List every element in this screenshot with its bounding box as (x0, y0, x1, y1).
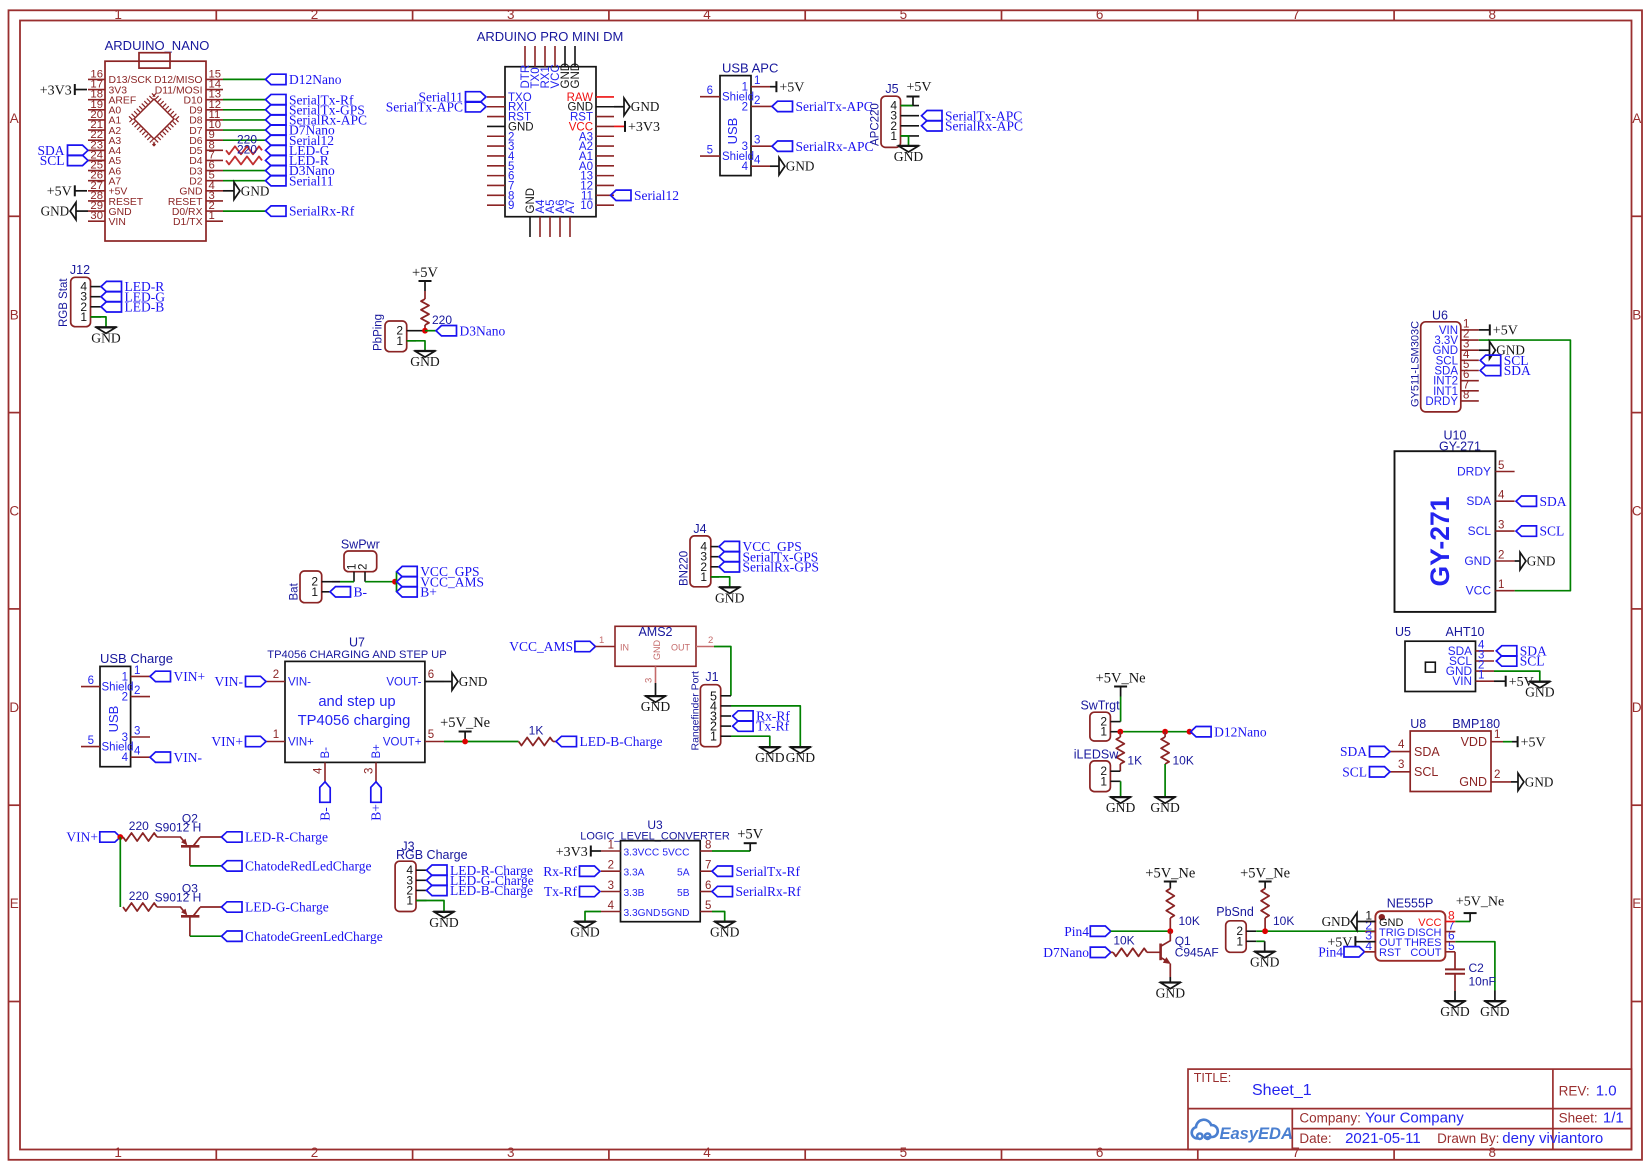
ground GND at Q1 emitter (1160, 981, 1182, 983)
net flag VIN- at U7 (246, 676, 267, 686)
svg-text:VOUT+: VOUT+ (383, 737, 422, 749)
pin 19 (A0) of ARDUINO_NANO (88, 109, 105, 111)
iLEDSw pin 2 (1110, 770, 1120, 772)
wire U5 GND pin 2 (1494, 671, 1540, 681)
J4 pin 3 (711, 556, 719, 558)
svg-text:1: 1 (311, 585, 318, 599)
svg-text:Serial12: Serial12 (634, 188, 679, 203)
svg-text:SerialTx-Rf: SerialTx-Rf (736, 864, 801, 879)
pro-mini right pin A1 (596, 155, 614, 157)
svg-text:GND: GND (894, 149, 924, 164)
svg-text:GND: GND (1480, 1004, 1510, 1019)
svg-text:SerialRx-APC: SerialRx-APC (945, 118, 1023, 133)
svg-text:+3V3: +3V3 (556, 845, 588, 860)
svg-text:SerialTx-APC: SerialTx-APC (386, 99, 463, 114)
junction at 10K resistor top (1162, 729, 1168, 735)
svg-text:COUT: COUT (1410, 947, 1441, 959)
svg-text:DRDY: DRDY (1425, 396, 1458, 408)
wire nano pin 15 to flag D12Nano (223, 78, 266, 80)
svg-text:USB: USB (725, 118, 740, 145)
svg-text:VIN+: VIN+ (288, 737, 314, 749)
svg-text:VIN+: VIN+ (174, 669, 206, 684)
pro-mini left pin 2 (487, 135, 505, 137)
svg-text:3: 3 (507, 1145, 515, 1160)
power +5V_Ne above SwTrgt (1114, 686, 1127, 688)
wire J3 pin 1 to GND (416, 901, 444, 912)
svg-text:10: 10 (580, 200, 593, 212)
svg-text:C: C (9, 504, 19, 519)
svg-text:Shield: Shield (722, 151, 754, 163)
net flag LED-G-Charge at Q3 (222, 902, 243, 912)
svg-text:2: 2 (273, 669, 279, 681)
U7 pin 2 VIN- (266, 681, 285, 683)
svg-text:U7: U7 (349, 636, 365, 650)
ground GND at nano pin 29 (76, 210, 88, 212)
svg-text:1: 1 (80, 310, 87, 324)
ground GND at pro-mini right (614, 106, 624, 108)
net flag SerialTx-GPS (266, 105, 287, 115)
svg-text:220: 220 (129, 819, 149, 833)
svg-text:Serial11: Serial11 (289, 173, 334, 188)
svg-text:REV:: REV: (1559, 1083, 1590, 1098)
svg-text:GND: GND (1464, 554, 1491, 568)
pro-mini left pin 3 (487, 145, 505, 147)
Bat pin 1 (322, 591, 330, 593)
svg-text:3: 3 (754, 135, 760, 147)
power +3V3 at nano pin 17 (75, 89, 87, 91)
wire J12 pin 1 to GND (91, 317, 107, 327)
svg-text:3.3B: 3.3B (624, 888, 645, 899)
svg-text:GND: GND (1440, 1004, 1470, 1019)
svg-text:1: 1 (599, 635, 604, 646)
J12 pin 2 (91, 306, 102, 308)
pro-mini left pin GND (487, 125, 505, 127)
J1 pin 2 (721, 725, 731, 727)
power +5V above PbPing resistor (419, 280, 432, 282)
svg-text:1: 1 (890, 129, 897, 143)
net flag SCL at U5 (1496, 656, 1517, 666)
svg-text:+5V_Ne: +5V_Ne (1096, 671, 1146, 687)
USB Charge pin 6 (Shield) (81, 686, 100, 688)
svg-text:OUT: OUT (671, 643, 691, 653)
NE555 pin 2 TRIG (1365, 931, 1375, 933)
U3 pin 4 3.3GND (601, 911, 621, 913)
ground GND left of U3 (574, 920, 596, 922)
U7 pin 5 VOUT+ (425, 741, 444, 743)
svg-text:D3Nano: D3Nano (460, 323, 506, 338)
U5 pin 4 SDA (1476, 650, 1495, 652)
svg-text:TP4056 charging: TP4056 charging (298, 713, 411, 729)
svg-text:3.3GND: 3.3GND (624, 908, 661, 919)
svg-text:LED-B-Charge: LED-B-Charge (580, 734, 663, 749)
pin 28 (RESET) of ARDUINO_NANO (88, 200, 105, 202)
junction at PbSnd node (1262, 928, 1268, 934)
wire nano pin 9 to flag Serial12 (223, 139, 266, 141)
USB APC pin 2 (751, 105, 770, 107)
USB APC pin 3 (751, 145, 770, 147)
pro-mini right pin 10 (596, 204, 614, 206)
svg-text:6: 6 (1096, 1145, 1104, 1160)
svg-text:VIN-: VIN- (174, 750, 203, 765)
net flag Serial12 at pro-mini pin 11 (611, 190, 632, 200)
svg-text:+3V3: +3V3 (628, 120, 660, 135)
net flag LED-R at J12 pin 4 (101, 281, 122, 291)
svg-text:TP4056 CHARGING AND STEP UP: TP4056 CHARGING AND STEP UP (267, 649, 446, 661)
pro-mini right pin 12 (596, 184, 614, 186)
pro-mini right pin A3 (596, 135, 614, 137)
svg-text:VIN: VIN (109, 217, 126, 228)
svg-text:GND: GND (1156, 986, 1186, 1001)
wire AMS2 OUT to J1 pin 5 (714, 647, 731, 696)
svg-text:SCL: SCL (1520, 654, 1545, 669)
pro-mini bottom pin A4 (539, 217, 541, 237)
SwTrgt pin 1 (1110, 731, 1120, 733)
svg-text:J4: J4 (693, 522, 706, 536)
power +5V_Ne above PbSnd 10K (1259, 881, 1272, 883)
net flag SDA at nano pin 23 (88, 149, 105, 151)
svg-text:GND: GND (1106, 800, 1136, 815)
wire nano pin 2 to flag SerialRx-Rf (223, 210, 266, 212)
svg-text:6: 6 (707, 85, 713, 97)
svg-text:U8: U8 (1410, 717, 1426, 731)
net flag LED-B at J12 pin 2 (101, 302, 122, 312)
svg-text:J12: J12 (70, 263, 90, 277)
svg-text:+5V_Ne: +5V_Ne (1240, 866, 1290, 882)
U7 pin 3 B+ (375, 762, 377, 781)
power +5V at USB APC pin 1 (770, 86, 776, 88)
svg-text:D1/TX: D1/TX (173, 217, 203, 228)
wire J1 pin 4 to GND (731, 706, 800, 747)
pin 2 (D0/RX) of ARDUINO_NANO (206, 210, 223, 212)
net flag VIN+ at U7 (246, 736, 267, 746)
svg-text:GND: GND (91, 330, 121, 345)
J3 pin 4 (416, 869, 427, 871)
ground GND below iLEDSw (1110, 796, 1132, 798)
pro-mini right pin VCC (596, 125, 614, 127)
svg-text:30: 30 (90, 210, 103, 222)
svg-text:3: 3 (364, 768, 376, 774)
J4 pin 2 (711, 566, 719, 568)
svg-text:NE555P: NE555P (1387, 897, 1434, 911)
USB Charge pin 1 (131, 675, 150, 677)
J3 pin 1 (416, 900, 427, 902)
pro-mini left pin RXI (487, 106, 505, 108)
J1 pin 1 (721, 735, 731, 737)
svg-text:GND: GND (641, 699, 671, 714)
pro-mini left pin 5 (487, 165, 505, 167)
J12 pin 3 (91, 296, 102, 298)
svg-text:+5V: +5V (1521, 736, 1546, 751)
wire nano pin 11 to flag SerialRx-APC (223, 119, 266, 121)
net flag SDA at U10 pin 4 (1516, 496, 1537, 506)
svg-text:B-: B- (318, 807, 333, 821)
ground GND at NE555 pin 1 (1357, 921, 1375, 923)
pin 1 (D1/TX) of ARDUINO_NANO (206, 220, 223, 222)
svg-text:J1: J1 (705, 670, 718, 684)
svg-text:AHT10: AHT10 (1446, 625, 1485, 639)
svg-text:Sheet:: Sheet: (1559, 1110, 1598, 1125)
pro-mini bottom pin A5 (549, 217, 551, 237)
svg-text:RGB Charge: RGB Charge (396, 848, 468, 862)
svg-text:4: 4 (703, 7, 711, 22)
svg-text:9: 9 (508, 200, 514, 212)
J12 pin 1 (91, 316, 102, 318)
svg-text:U6: U6 (1432, 309, 1448, 323)
wire connecting VCC flag tips (396, 572, 398, 592)
svg-text:B: B (1632, 307, 1641, 322)
net flag LED-R (266, 155, 287, 165)
J3 pin 3 (416, 879, 427, 881)
svg-text:GND: GND (1525, 774, 1554, 789)
svg-text:Drawn By:: Drawn By: (1437, 1131, 1499, 1146)
svg-text:7: 7 (705, 860, 711, 872)
svg-text:E: E (1632, 896, 1641, 911)
PbPing pin 1 (407, 340, 416, 342)
U7 pin 4 B- (324, 762, 326, 781)
U6 pin 6 INT2 (1461, 380, 1479, 382)
svg-text:SDA: SDA (1540, 494, 1567, 509)
net flag LED-R-Charge at J3 pin 4 (427, 865, 448, 875)
svg-text:8: 8 (1463, 389, 1469, 401)
U10 pin 4 SDA (1495, 500, 1514, 502)
svg-text:4: 4 (754, 155, 761, 167)
net flag D3Nano (436, 326, 457, 336)
pro-mini top pin RX1 (544, 46, 546, 67)
svg-text:1: 1 (710, 730, 717, 744)
pin 13 (D10) of ARDUINO_NANO (206, 99, 223, 101)
svg-text:A7: A7 (565, 199, 577, 213)
pro-mini right pin 11 (596, 194, 614, 196)
svg-text:C: C (1632, 504, 1642, 519)
net flag VCC_AMS (397, 577, 418, 587)
svg-text:SDA: SDA (1340, 744, 1367, 759)
svg-text:2: 2 (311, 1145, 319, 1160)
net flag B+ (397, 587, 418, 597)
svg-text:2021-05-11: 2021-05-11 (1345, 1130, 1421, 1147)
svg-text:Date:: Date: (1299, 1131, 1331, 1146)
ground GND at J4 (719, 586, 741, 588)
net flag SerialRx-Rf at U3 pin 6 (712, 886, 733, 896)
NE555 pin 4 RST (1365, 951, 1375, 953)
capacitor C2 10nF (1445, 968, 1465, 970)
junction at SwTrgt pin 1 (1117, 729, 1123, 735)
svg-text:SCL: SCL (40, 153, 65, 168)
svg-text:deny viviantoro: deny viviantoro (1502, 1130, 1603, 1147)
svg-text:1: 1 (1100, 774, 1107, 788)
svg-text:1: 1 (608, 840, 614, 852)
svg-text:VIN+: VIN+ (211, 734, 243, 749)
pin 21 (A2) of ARDUINO_NANO (88, 129, 105, 131)
wire U7 VOUT+ to 1K resistor (444, 741, 519, 743)
wire J1 pin 1 to GND (731, 736, 770, 747)
power +5V at U8 VDD (1517, 736, 1519, 747)
svg-text:VIN-: VIN- (288, 677, 311, 689)
wire Q2 collector (189, 846, 191, 866)
svg-text:4: 4 (122, 752, 129, 764)
svg-text:Shield: Shield (102, 682, 134, 694)
net flag LED-G (266, 145, 287, 155)
svg-text:S9012 H: S9012 H (155, 821, 202, 835)
svg-text:VIN+: VIN+ (66, 830, 98, 845)
svg-text:VIN: VIN (1452, 674, 1472, 688)
junction on VOUT+ net (462, 739, 468, 745)
net flag Pin4 at NE555 RST (1344, 947, 1365, 957)
svg-text:220: 220 (237, 142, 257, 156)
pin 17 (3V3) of ARDUINO_NANO (88, 89, 105, 91)
svg-text:1: 1 (114, 1145, 122, 1160)
PbSnd pin 2 (1246, 930, 1256, 932)
J12 pin 4 (91, 286, 102, 288)
U7 pin 1 VIN+ (266, 741, 285, 743)
svg-text:EasyEDA: EasyEDA (1220, 1125, 1293, 1143)
svg-text:ChatodeRedLedCharge: ChatodeRedLedCharge (245, 859, 371, 874)
svg-text:TITLE:: TITLE: (1194, 1071, 1232, 1085)
net flag SerialRx-APC (266, 115, 287, 125)
net flag LED-G at J12 pin 3 (101, 292, 122, 302)
pro-mini right pin RST (596, 116, 614, 118)
U6 pin 5 SDA (1461, 370, 1479, 372)
U8 pin 2 GND (1491, 781, 1511, 783)
svg-text:VCC_AMS: VCC_AMS (509, 639, 573, 654)
wire nano pin 5 to flag Serial11 (223, 180, 266, 182)
svg-text:J5: J5 (885, 82, 898, 96)
pro-mini left pin 4 (487, 155, 505, 157)
svg-text:1: 1 (1100, 725, 1107, 739)
svg-text:GND: GND (570, 925, 600, 940)
wire J4 pin 1 to GND (711, 577, 730, 587)
svg-text:1: 1 (273, 729, 279, 741)
net flag D12Nano (266, 74, 287, 84)
svg-text:PbSnd: PbSnd (1216, 905, 1254, 919)
pro-mini right pin RAW (596, 96, 614, 98)
svg-text:3: 3 (608, 880, 614, 892)
svg-text:Pin4: Pin4 (1318, 944, 1343, 959)
svg-text:+3V3: +3V3 (40, 83, 72, 98)
wire nano pin 6 to flag D3Nano (223, 170, 266, 172)
svg-text:B-: B- (354, 584, 368, 599)
svg-text:1: 1 (1236, 934, 1243, 948)
svg-text:3: 3 (644, 678, 655, 683)
svg-text:SDA: SDA (1504, 363, 1531, 378)
U3 pin 1 3.3VCC (601, 850, 621, 852)
AMS2 pin 3 wire (655, 666, 657, 683)
J5 pin 1 (901, 135, 920, 137)
svg-text:SCL: SCL (1468, 524, 1492, 538)
NE555 pin 7 stub (1445, 931, 1455, 933)
resistor 10K at Q1 collector (1166, 889, 1174, 919)
svg-text:+5V: +5V (737, 827, 763, 843)
wire U3 pin 8 to +5V (712, 850, 750, 852)
svg-text:GND: GND (710, 925, 740, 940)
svg-text:GND: GND (1322, 914, 1351, 929)
svg-text:Shield: Shield (102, 742, 134, 754)
net flag VIN+ feeding Q2/Q3 (100, 832, 121, 842)
pin-1 marker dot inside NE555 (1379, 914, 1385, 920)
AMS2 pin 2 wire (696, 646, 714, 648)
svg-text:D12Nano: D12Nano (289, 72, 342, 87)
svg-text:2: 2 (1498, 550, 1504, 562)
svg-text:RGB Stat: RGB Stat (58, 278, 70, 327)
svg-text:5: 5 (88, 735, 94, 747)
resistor 10K at PbSnd (1261, 889, 1269, 919)
J5 pin 4 (901, 105, 920, 107)
resistor 1K below SwTrgt pin 1 (1119, 732, 1121, 737)
net flag SCL at U8 (1370, 767, 1391, 777)
iLEDSw pin 1 (1110, 780, 1120, 782)
svg-text:+5V: +5V (779, 81, 804, 96)
pro-mini right pin A2 (596, 145, 614, 147)
J1 pin 3 (721, 715, 731, 717)
pin 11 (D8) of ARDUINO_NANO (206, 119, 223, 121)
svg-text:+5V: +5V (1509, 675, 1534, 690)
wire NE555 VCC pin 8 to +5V_Ne (1445, 921, 1455, 923)
svg-text:D7Nano: D7Nano (1043, 945, 1089, 960)
J5 pin 2 (901, 125, 920, 127)
svg-text:U5: U5 (1395, 625, 1411, 639)
pin 5 (D2) of ARDUINO_NANO (206, 180, 223, 182)
svg-text:Your Company: Your Company (1365, 1109, 1464, 1126)
svg-text:1: 1 (114, 7, 122, 22)
net flag B+ below U7 (371, 782, 381, 803)
svg-text:5: 5 (705, 900, 711, 912)
resistor 220 at Q3 base (122, 906, 124, 908)
svg-text:3: 3 (507, 7, 515, 22)
svg-text:VDD: VDD (1461, 735, 1487, 749)
resistor 220 at nano pin 7 (D4) (225, 159, 227, 161)
PbPing pin 2 (407, 330, 425, 332)
pin 4 (GND) of ARDUINO_NANO (206, 190, 223, 192)
U3 pin 7 5A (700, 870, 712, 872)
svg-text:7: 7 (1292, 7, 1300, 22)
wire NE555 pin 6 THRES to GND (1445, 941, 1455, 943)
pin 25 (A6) of ARDUINO_NANO (88, 170, 105, 172)
svg-text:GND: GND (241, 183, 270, 198)
J4 pin 1 (711, 576, 719, 578)
U8 pin 4 SDA (1390, 751, 1410, 753)
resistor 220 at Q2 base (122, 836, 124, 838)
pro-mini left pin 6 (487, 175, 505, 177)
pin 10 (D7) of ARDUINO_NANO (206, 129, 223, 131)
pro-mini top pin VCC (554, 46, 556, 67)
svg-text:10nF: 10nF (1469, 974, 1496, 988)
svg-text:2: 2 (754, 95, 760, 107)
pro-mini bottom pin A6 (559, 217, 561, 237)
ground GND right of J1 (790, 746, 812, 748)
svg-text:DRDY: DRDY (1457, 465, 1491, 479)
net flag SerialTx-APC at pro-mini RXI (466, 102, 487, 112)
pin 18 (AREF) of ARDUINO_NANO (88, 99, 105, 101)
svg-text:USB: USB (106, 706, 121, 733)
svg-text:SCL: SCL (1540, 524, 1565, 539)
USB Charge pin 5 (Shield) (81, 746, 100, 748)
svg-text:LED-G-Charge: LED-G-Charge (245, 900, 329, 915)
pin 7 (D4) of ARDUINO_NANO (206, 159, 223, 161)
net flag Pin4 to Q1 collector (1090, 926, 1111, 936)
net flag SerialRx-APC at J5 pin 2 (922, 121, 943, 131)
junction at PbPing pin 2 node (422, 328, 428, 334)
U10 pin 1 VCC (1495, 590, 1514, 592)
svg-text:+5V: +5V (47, 185, 72, 200)
wire nano pin 10 to flag D7Nano (223, 129, 266, 131)
U10 pin 2 GND (1495, 560, 1514, 562)
svg-text:D: D (9, 700, 19, 715)
net flag Serial12 (266, 135, 287, 145)
power +3V3 at U3 pin 1 (591, 850, 601, 852)
svg-text:VIN-: VIN- (215, 674, 244, 689)
resistor 220 (PbPing pull-up) (424, 291, 426, 299)
svg-text:5: 5 (428, 729, 434, 741)
svg-text:A: A (1632, 111, 1641, 126)
